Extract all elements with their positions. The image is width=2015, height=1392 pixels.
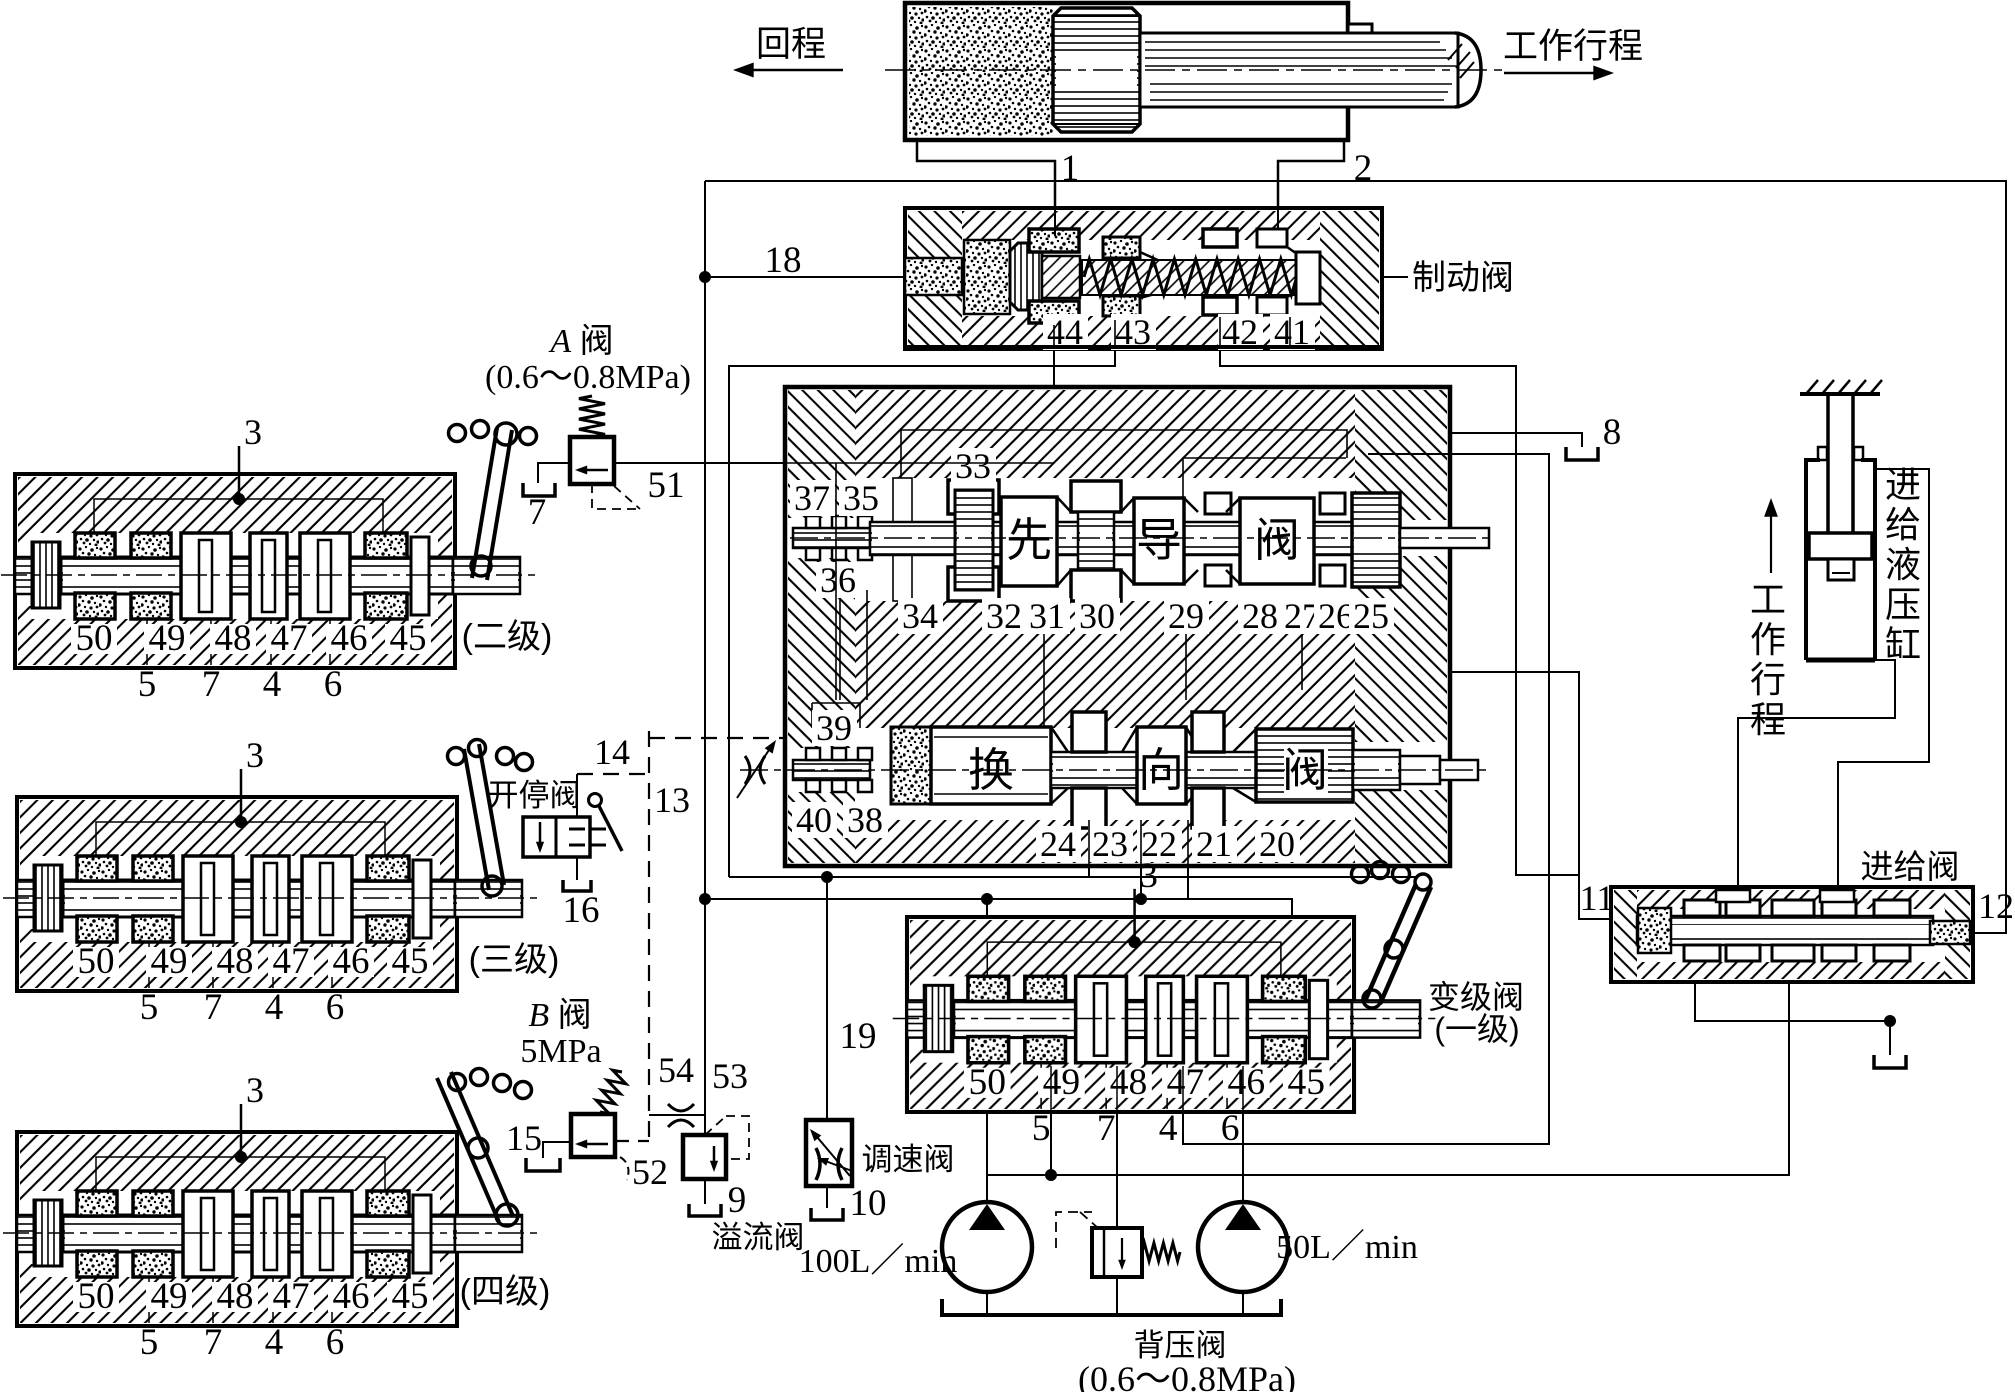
brake valve bottom edge redraw: [905, 345, 1382, 349]
wire 51 horizontal: [614, 462, 1054, 464]
speed valve drain 10: [826, 1186, 828, 1208]
svg-text:工: 工: [1750, 579, 1786, 620]
land pair 23: [1072, 712, 1106, 752]
tank 8: [1566, 447, 1598, 460]
svg-text:24: 24: [1040, 824, 1076, 864]
svg-text:溢流阀: 溢流阀: [712, 1220, 805, 1255]
wire main top line: [705, 181, 2006, 933]
svg-text:调速阀: 调速阀: [862, 1142, 955, 1177]
passage P2: [1183, 458, 1346, 497]
pilot right stem: [1400, 528, 1489, 548]
brake spring: [1084, 259, 1318, 295]
pilot end cap: [1352, 493, 1400, 587]
wire 18: [705, 276, 905, 278]
wire feed cyl B: [1738, 660, 1895, 887]
land xian: [1001, 497, 1057, 586]
lever block2: [449, 421, 537, 581]
svg-text:1: 1: [1061, 148, 1080, 189]
piston rod: [1140, 33, 1481, 107]
svg-text:(一级): (一级): [1434, 1011, 1519, 1047]
land fa lower: [1256, 729, 1353, 802]
brake spring core: [1082, 260, 1320, 295]
svg-text:13: 13: [654, 780, 690, 820]
svg-text:背压阀: 背压阀: [1134, 1328, 1227, 1363]
land pair 21: [1192, 712, 1224, 752]
cylinder stipple chamber: [909, 7, 1053, 136]
passage left loop: [812, 590, 867, 728]
svg-text:34: 34: [902, 596, 938, 636]
feed valve left plug stipple: [1638, 908, 1671, 953]
piston: [1053, 8, 1140, 132]
wire port 2 bracket: [1278, 141, 1344, 228]
arrow right work stroke: [1504, 72, 1608, 75]
passage mid verticals: [1044, 601, 1302, 728]
svg-text:29: 29: [1168, 596, 1204, 636]
stage block 4 (si ji): [3, 1070, 537, 1363]
svg-text:(0.6～0.8MPa): (0.6～0.8MPa): [485, 359, 691, 396]
svg-text:10: 10: [850, 1183, 887, 1224]
land dao: [1134, 498, 1184, 584]
wire port 1 bracket: [917, 141, 1055, 236]
port 1/2 stubs into brake valve: [1054, 208, 1056, 236]
wire 25 into right wall: [1368, 453, 1452, 455]
svg-text:30: 30: [1079, 596, 1115, 636]
dashed line 13 vertical: [648, 731, 650, 1141]
dir shaft: [1051, 752, 1353, 788]
svg-text:52: 52: [632, 1152, 668, 1192]
dir right stem: [1353, 750, 1400, 790]
passage 51 into block: [835, 463, 837, 703]
pump 50L: [1198, 1202, 1288, 1292]
svg-text:制动阀: 制动阀: [1412, 259, 1514, 297]
brake valve piston stipple: [964, 240, 1010, 314]
svg-text:2: 2: [1354, 148, 1373, 189]
wire port 7 back pressure: [1116, 1112, 1118, 1315]
svg-text:26: 26: [1318, 596, 1354, 636]
wire bus 53 vertical: [704, 181, 706, 1135]
svg-text:(四级): (四级): [460, 1273, 551, 1311]
pump 100L: [942, 1202, 1032, 1292]
svg-text:8: 8: [1603, 412, 1622, 453]
svg-text:给: 给: [1885, 504, 1921, 545]
white slot column: [893, 478, 912, 601]
svg-text:33: 33: [955, 446, 991, 486]
dashed B valve pilot: [615, 1140, 649, 1142]
brake valve port stubs down: [1054, 317, 1290, 349]
small land pair 26: [1320, 493, 1345, 514]
feed valve right plug stipple: [1930, 921, 1970, 944]
svg-text:21: 21: [1196, 824, 1232, 864]
svg-text:28: 28: [1242, 596, 1278, 636]
wire port 42 down-right: [1220, 349, 1579, 875]
cylinder right protrusion: [1348, 24, 1372, 106]
svg-text:回程: 回程: [756, 25, 826, 64]
feed valve lands: [1684, 900, 1720, 916]
svg-text:31: 31: [1029, 596, 1065, 636]
svg-text:18: 18: [765, 240, 802, 281]
arrow left return: [737, 69, 843, 72]
wire port 23: [1140, 820, 1142, 899]
pilot port labels top: [951, 448, 996, 484]
feed valve top lands: [1716, 890, 1750, 902]
feed cylinder rod: [1826, 394, 1830, 533]
dashed line 14 to block: [649, 737, 787, 739]
svg-text:进: 进: [1885, 464, 1921, 505]
brake valve ribbed cap: [1010, 243, 1042, 310]
throttle at left entry: [745, 756, 765, 784]
svg-text:38: 38: [847, 800, 883, 840]
svg-text:变级阀: 变级阀: [1428, 979, 1524, 1015]
suction bracket: [942, 1299, 1281, 1315]
wire port 43 down-left: [729, 349, 1115, 877]
brake spool center hatched: [1042, 256, 1080, 298]
svg-text:54: 54: [658, 1050, 694, 1090]
svg-text:15: 15: [506, 1118, 542, 1158]
brake right cap: [1296, 252, 1320, 304]
svg-text:导: 导: [1136, 514, 1182, 566]
feed piston: [1809, 533, 1872, 559]
A valve spring: [579, 396, 605, 437]
B valve drain 15: [543, 1142, 571, 1158]
pilot shaft: [870, 522, 1360, 555]
svg-text:(三级): (三级): [469, 941, 560, 979]
wire port 44 up: [1053, 349, 1055, 463]
svg-text:行: 行: [1750, 659, 1786, 700]
land 33: [948, 480, 999, 514]
wire port 4 to right: [1183, 454, 1549, 1144]
wire 19 to speed valve: [826, 877, 828, 1120]
brake valve body: [905, 208, 1382, 349]
lever block4: [437, 1069, 532, 1227]
wire block right to 11: [1450, 672, 1611, 919]
svg-text:12: 12: [1978, 886, 2014, 926]
wire port 21: [1187, 820, 1189, 899]
wire port 6 to pump2: [1242, 1112, 1244, 1204]
feed cylinder body: [1806, 460, 1875, 660]
svg-text:作: 作: [1750, 619, 1786, 660]
dir port labels: [812, 710, 857, 746]
svg-text:5MPa: 5MPa: [520, 1033, 601, 1070]
dir stipple plug: [891, 727, 931, 804]
node dot 19 branch: [822, 872, 833, 883]
passage P1: [901, 430, 1347, 478]
feed valve body: [1611, 887, 1973, 982]
wire port 5: [1050, 1112, 1052, 1175]
label 52: [620, 1157, 628, 1180]
svg-text:50L／min: 50L／min: [1276, 1229, 1418, 1266]
svg-text:阀: 阀: [1254, 514, 1300, 566]
svg-text:工作行程: 工作行程: [1503, 27, 1643, 66]
land 42: [1203, 229, 1237, 247]
land 41: [1257, 229, 1287, 247]
land 44 stippled: [1029, 229, 1079, 252]
A valve body: [570, 437, 614, 484]
land 30: [1071, 481, 1121, 512]
svg-text:(二级): (二级): [462, 618, 553, 656]
back pressure dashed pilot: [1056, 1212, 1098, 1248]
svg-text:51: 51: [648, 465, 685, 506]
svg-text:14: 14: [594, 732, 630, 772]
dashed start-stop pilot: [577, 773, 649, 775]
land 43 stippled: [1103, 237, 1140, 258]
svg-text:20: 20: [1259, 824, 1295, 864]
svg-text:19: 19: [840, 1016, 877, 1057]
wire tank 8: [1450, 433, 1582, 447]
wire Y3 suction line: [988, 982, 1789, 1175]
feed valve spool: [1637, 916, 1933, 945]
B valve body: [571, 1114, 615, 1157]
lever block3: [448, 740, 533, 897]
svg-text:36: 36: [820, 560, 856, 600]
svg-text:32: 32: [986, 596, 1022, 636]
tank feed valve: [1874, 1055, 1906, 1068]
speed valve 10: [806, 1120, 852, 1186]
svg-text:进给阀: 进给阀: [1861, 848, 1960, 885]
wire feed cyl A: [1838, 469, 1929, 887]
svg-text:缸: 缸: [1885, 624, 1921, 665]
svg-text:39: 39: [816, 708, 852, 748]
throttle 54: [668, 1104, 694, 1127]
wire pump1 riser: [986, 899, 988, 1203]
relief valve 9: [683, 1135, 726, 1179]
A valve dashed pilot: [592, 484, 640, 509]
central valve block body: [785, 387, 1450, 866]
svg-text:压: 压: [1885, 584, 1921, 625]
wire feed valve drain: [1695, 982, 1890, 1055]
land xiang: [1137, 727, 1186, 804]
dir spool left stem: [793, 760, 870, 780]
svg-text:A 阀: A 阀: [548, 323, 613, 360]
svg-text:25: 25: [1353, 596, 1389, 636]
svg-text:先: 先: [1006, 514, 1052, 566]
back pressure valve: [1092, 1228, 1142, 1277]
pilot centerline: [790, 537, 1494, 539]
stage block 2 (er ji): [1, 412, 535, 705]
svg-text:53: 53: [712, 1056, 748, 1096]
svg-text:35: 35: [843, 478, 879, 518]
start stop drain 16: [576, 857, 578, 880]
node dot 18: [700, 272, 711, 283]
svg-text:7: 7: [528, 492, 547, 533]
svg-text:37: 37: [794, 478, 830, 518]
svg-text:40: 40: [796, 800, 832, 840]
dir centerline: [740, 769, 1490, 771]
svg-text:9: 9: [728, 1180, 747, 1221]
main cylinder body: [905, 3, 1348, 140]
stage block 1 bian ji fa: [893, 855, 1436, 1149]
svg-text:(0.6～0.8MPa): (0.6～0.8MPa): [1078, 1359, 1296, 1392]
pilot spool left stem: [793, 528, 870, 548]
port riser stubs central block bottom: [1089, 820, 1188, 866]
feed cylinder wall: [1800, 392, 1880, 396]
A valve drain: [538, 463, 570, 483]
stage block 3 (san ji): [3, 735, 537, 1028]
up arrow work stroke: [1770, 505, 1772, 573]
passage 51 inside block: [787, 462, 1054, 464]
svg-text:23: 23: [1092, 824, 1128, 864]
label zhi dong fa: [1382, 276, 1408, 278]
svg-text:B 阀: B 阀: [528, 997, 591, 1034]
cylinder centerline: [885, 69, 1502, 71]
small land pair 28: [1205, 493, 1231, 514]
svg-text:程: 程: [1750, 699, 1786, 740]
brake port labels: [1043, 314, 1088, 350]
land huan: [931, 727, 1051, 804]
svg-text:100L／min: 100L／min: [799, 1243, 958, 1280]
B valve spring: [596, 1070, 626, 1114]
relief drain: [704, 1179, 706, 1204]
wire Y1 below pilot block: [729, 876, 1417, 878]
svg-text:16: 16: [563, 890, 600, 931]
start stop lever roller: [590, 829, 606, 845]
svg-text:液: 液: [1885, 544, 1921, 585]
brake valve left plug: [905, 258, 962, 295]
land fa upper: [1240, 498, 1314, 584]
start stop valve: [523, 817, 590, 857]
lever block1: [1352, 862, 1432, 1009]
relief dashed pilot: [705, 1116, 749, 1159]
wire Y2 line 3: [705, 899, 1292, 917]
svg-text:开停阀: 开停阀: [488, 778, 581, 813]
pilot port labels bottom: [898, 598, 943, 634]
